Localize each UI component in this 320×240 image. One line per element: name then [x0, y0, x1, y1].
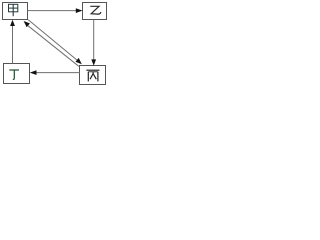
wire 丙→甲 diagonal (lower line) — [28, 26, 79, 67]
glyph 丁 — [9, 70, 19, 79]
box 丁 (bottom-left) — [4, 64, 30, 84]
wire 丙→丁 horizontal — [36, 72, 80, 74]
wire 甲→乙 horizontal — [28, 10, 77, 12]
glyph 乙 — [90, 6, 101, 14]
wire 甲→丙 diagonal (upper line) — [28, 20, 78, 61]
wire 丁→甲 vertical — [12, 26, 14, 64]
box 乙 (top-right) — [83, 3, 107, 20]
box 丙 (bottom-right) — [80, 66, 106, 85]
box 甲 (top-left) — [3, 3, 28, 20]
arrowhead into 甲 (diagonal) — [24, 21, 30, 27]
arrowhead into 丙 — [91, 59, 96, 65]
arrowhead into 丙 (diagonal) — [76, 58, 82, 64]
wire 乙→丙 vertical — [93, 20, 95, 61]
arrowhead into 丁 — [30, 70, 37, 75]
arrowhead into 甲 — [10, 20, 15, 26]
glyph 丙 — [86, 70, 99, 81]
arrowhead into 乙 — [76, 8, 83, 13]
glyph 甲 — [9, 4, 18, 16]
